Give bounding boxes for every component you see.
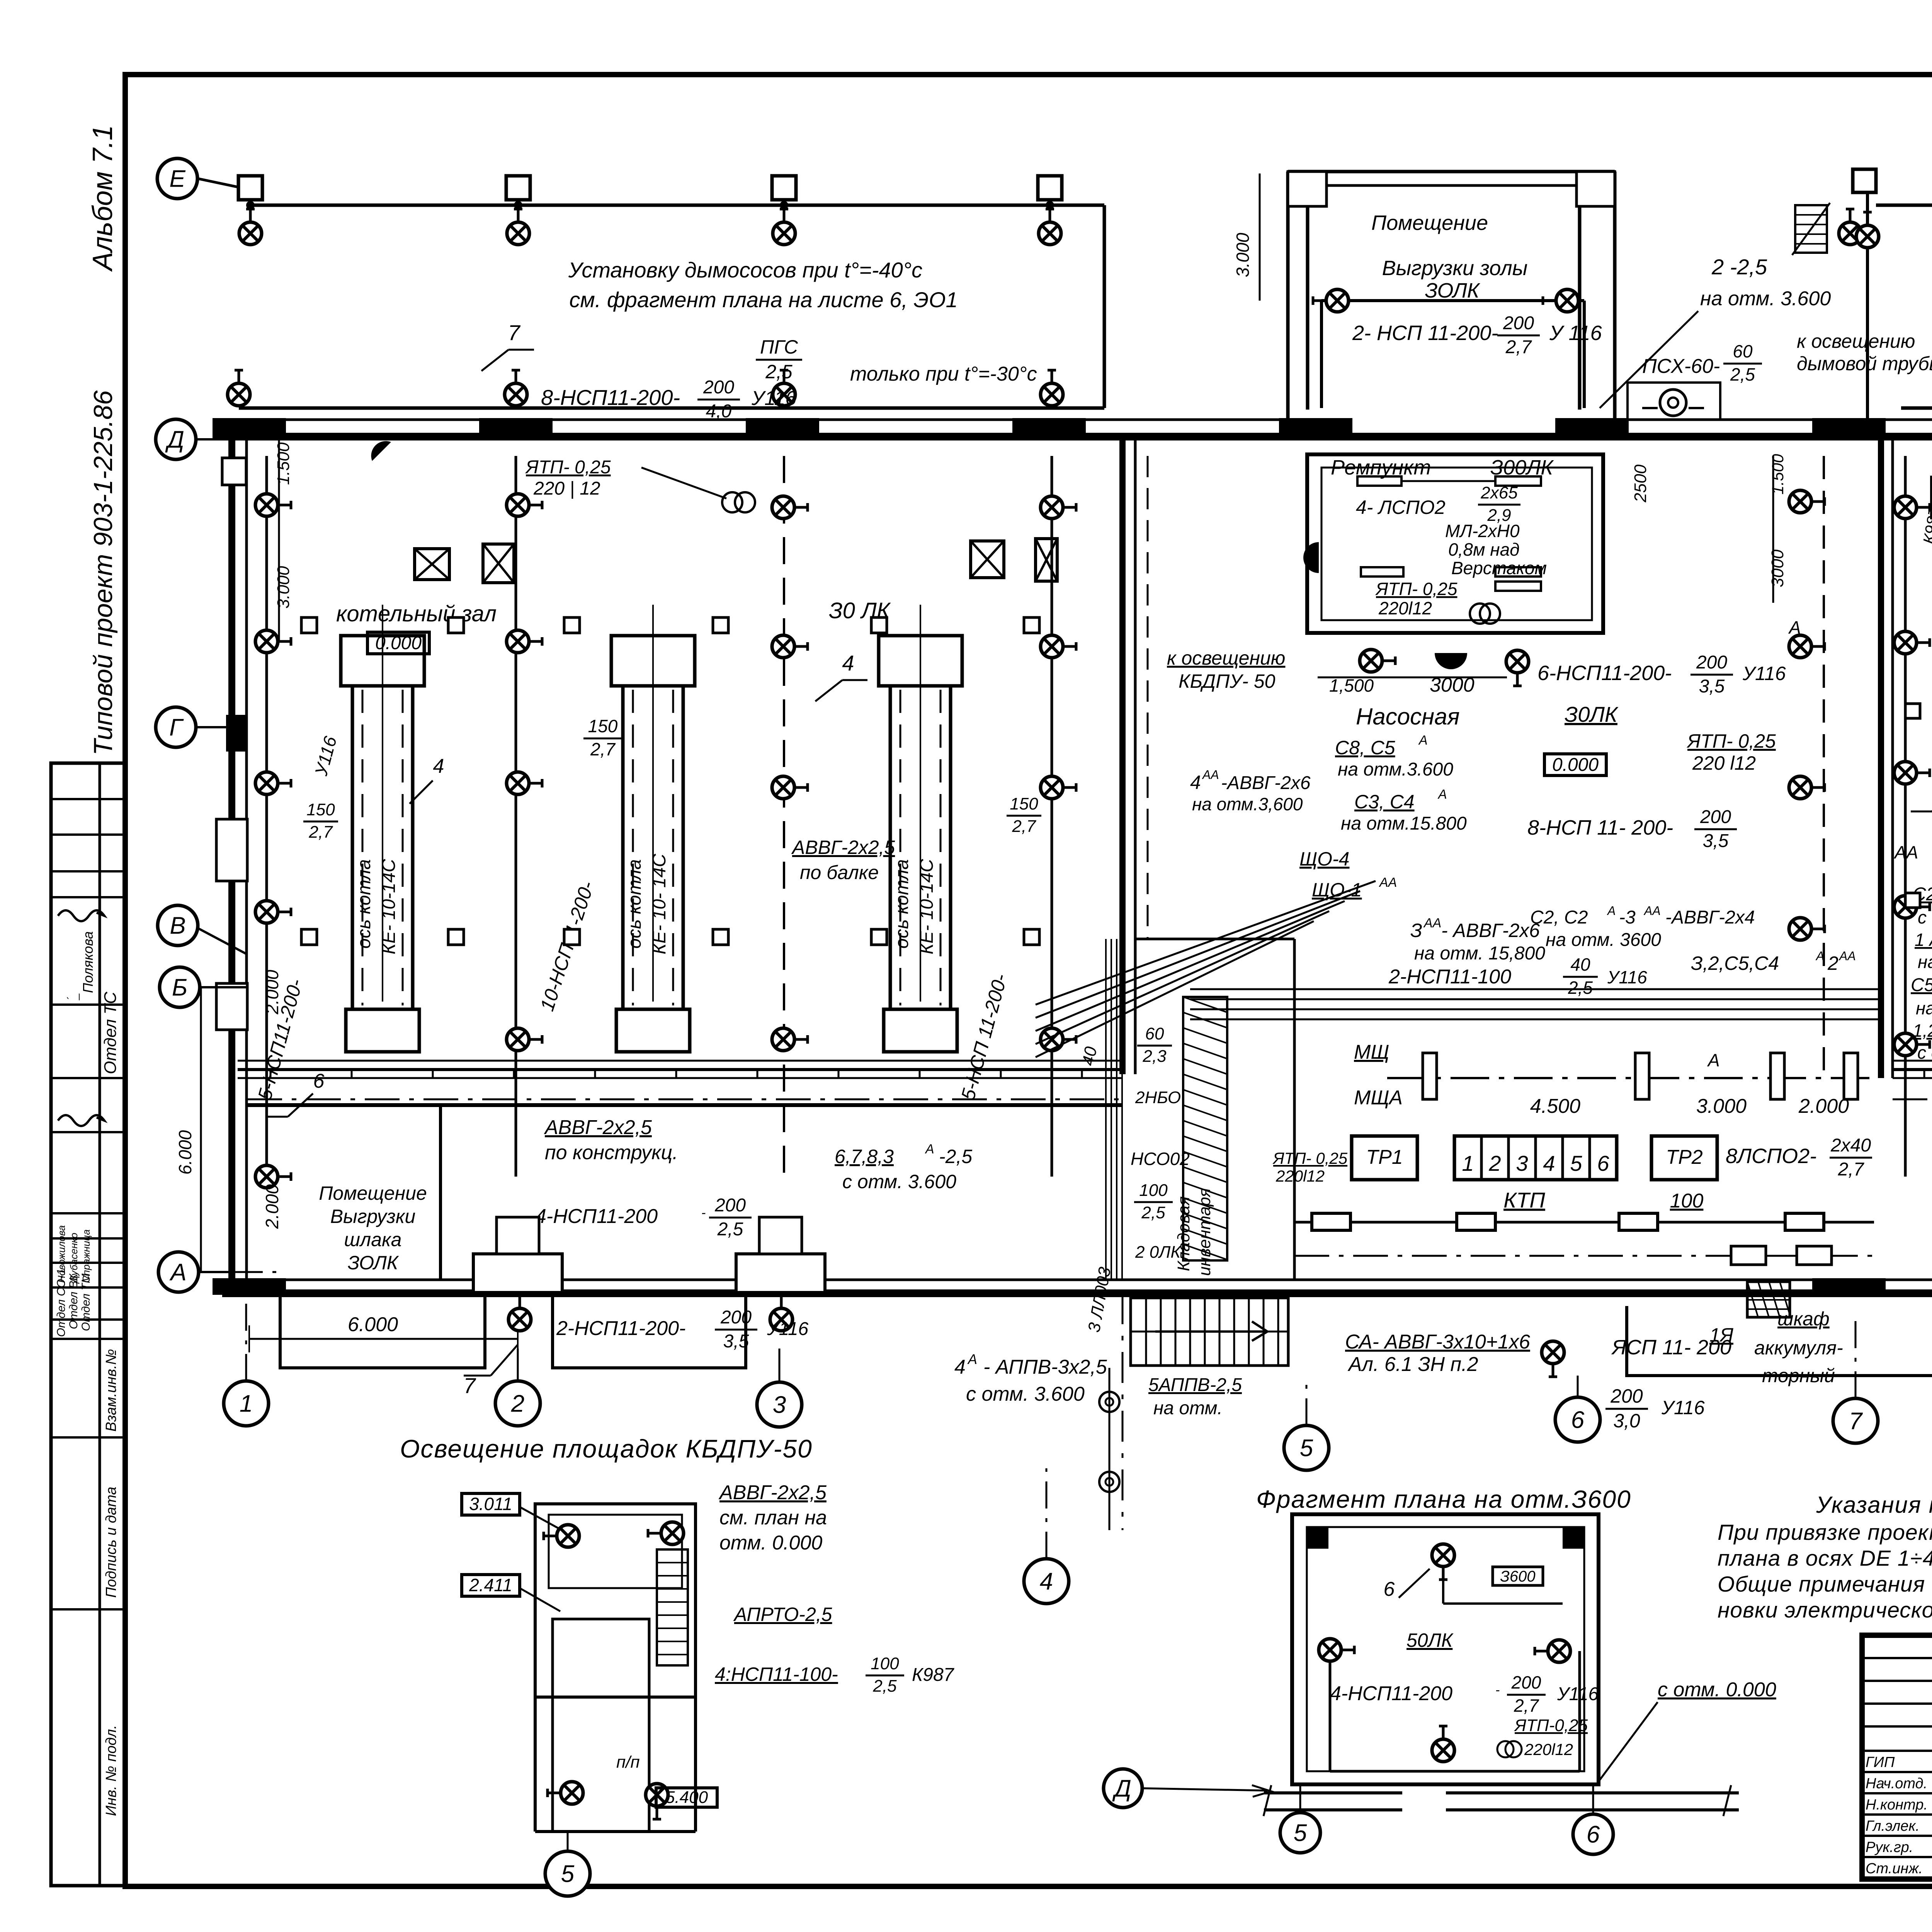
svg-text:2,7: 2,7 [1505, 337, 1532, 357]
lamp rcol0 3 [1894, 762, 1930, 784]
svg-text:У116: У116 [1661, 1397, 1705, 1418]
label C8 C5A [1335, 733, 1453, 780]
fragment label YaTP [1497, 1716, 1588, 1759]
svg-text:Г: Г [169, 714, 184, 741]
stamp signatures [58, 910, 104, 1126]
column circle 5 [1284, 1425, 1329, 1470]
label YaTP left hall [525, 457, 755, 512]
fragment c5 leader [1299, 1785, 1301, 1813]
svg-text:Общие примечания и ведомост: Общие примечания и ведомость узлов уста- [1718, 1572, 1932, 1597]
fragment c6 leader [1592, 1785, 1594, 1814]
svg-text:200: 200 [1696, 652, 1727, 673]
svg-text:4: 4 [1190, 772, 1201, 793]
svg-text:АА: АА [1423, 916, 1441, 930]
fragment axis D leader [1142, 1785, 1271, 1797]
svg-text:200: 200 [1700, 807, 1731, 827]
svg-text:НСО02: НСО02 [1131, 1149, 1190, 1169]
svg-text:ПСХ-60-: ПСХ-60- [1642, 355, 1720, 378]
boiler3 axis label [892, 859, 937, 954]
svg-text:200: 200 [1610, 1385, 1643, 1407]
left hall lamp column 1 [265, 456, 268, 1177]
svg-text:КЕ- 10-14С: КЕ- 10-14С [379, 859, 399, 954]
svg-text:ПГС: ПГС [760, 336, 798, 358]
KTP cells [1454, 1136, 1617, 1180]
ash room wire [1321, 301, 1584, 408]
dash-dot feeder bottom centre [1294, 1246, 1874, 1265]
platform 2-3 [553, 1293, 746, 1368]
svg-text:Альбом 7.1: Альбом 7.1 [87, 125, 118, 272]
centre stairs bottom [1131, 1298, 1288, 1366]
svg-text:плана в осях DЕ 1÷4; 7÷10: плана в осях DЕ 1÷4; 7÷10 исключить. [1718, 1546, 1932, 1571]
column 6 leader [1577, 1376, 1579, 1397]
lamp col4 2 [1041, 635, 1076, 658]
svg-text:Установку дымососов при t°: Установку дымососов при t°=-40°с [568, 258, 922, 282]
svg-text:МЩ: МЩ [1354, 1041, 1389, 1063]
column circle 2 [495, 1381, 540, 1426]
TR1 box [1352, 1136, 1417, 1180]
svg-text:У116: У116 [1607, 967, 1647, 987]
svg-text:ЩО-4: ЩО-4 [1299, 848, 1350, 870]
svg-text:6.000: 6.000 [175, 1130, 195, 1175]
svg-text:-АВВГ-2х4: -АВВГ-2х4 [1665, 907, 1755, 928]
svg-text:АВВГ-2х2,5: АВВГ-2х2,5 [791, 837, 895, 858]
left hall lamp column 2 [515, 456, 517, 1177]
label AVVG po konstruk left [544, 1116, 678, 1164]
svg-text:котельный зал: котельный зал [336, 601, 497, 626]
svg-text:200: 200 [720, 1307, 752, 1328]
svg-text:100: 100 [1139, 1181, 1168, 1200]
column 7 leader [1855, 1314, 1857, 1398]
svg-text:220l12: 220l12 [1524, 1740, 1573, 1759]
label PGS 2.5 left [756, 336, 802, 383]
svg-text:Насосная: Насосная [1356, 704, 1460, 730]
svg-text:2: 2 [511, 1391, 524, 1417]
svg-text:3000: 3000 [1430, 674, 1475, 696]
left wall dim 3.000 [274, 502, 293, 641]
row E wire left [250, 204, 1104, 207]
svg-text:ЯТП- 0,25: ЯТП- 0,25 [525, 457, 611, 478]
leader 8 right [1911, 763, 1932, 811]
label 8LSPO2 [1726, 1135, 1872, 1180]
lamp col4 1 [1041, 496, 1076, 519]
centre diag cable fan [1036, 881, 1878, 1057]
svg-text:А: А [1707, 1050, 1720, 1070]
svg-text:ЯТП- 0,25: ЯТП- 0,25 [1686, 730, 1776, 752]
fuse row under KTP [1294, 1213, 1874, 1230]
svg-text:4: 4 [1040, 1568, 1053, 1595]
svg-text:КБДПУ- 50: КБДПУ- 50 [1179, 670, 1276, 692]
svg-text:только при t°=-30°с: только при t°=-30°с [850, 363, 1037, 385]
labels C2 C2A right stack [1911, 879, 1932, 1063]
MShch feeder dash-dot [1387, 1077, 1878, 1079]
label 3AA AVVG-2x6 [1410, 916, 1545, 964]
leader 7 left [481, 320, 534, 371]
label 4-NSP11 left bottom [535, 1195, 752, 1240]
svg-text:5АППВ-2,5: 5АППВ-2,5 [1148, 1375, 1242, 1395]
KBDPU plan outline [535, 1504, 696, 1832]
svg-text:При привязке проекта для вариа: При привязке проекта для варианта t=-40°… [1718, 1520, 1932, 1545]
svg-text:ЯТП- 0,25: ЯТП- 0,25 [1375, 579, 1458, 599]
column 3 leader [779, 1349, 781, 1382]
axis circle A [158, 1252, 199, 1292]
svg-text:-: - [1495, 1683, 1500, 1697]
leader 6 left wall [267, 1070, 325, 1117]
svg-text:2.000: 2.000 [262, 1184, 282, 1229]
lamp col3 2 [772, 635, 808, 658]
ash room lamp 2 [1543, 289, 1578, 312]
fragment lamps mid [1319, 1639, 1354, 1661]
svg-text:40: 40 [1570, 954, 1590, 975]
column 4 leader [1046, 1468, 1048, 1559]
svg-text:1,2,3,2: 1,2,3,2 [1913, 1020, 1932, 1041]
svg-text:АА: АА [1202, 768, 1219, 782]
row E fixture squares left [238, 176, 262, 200]
svg-text:0,8м над: 0,8м над [1448, 539, 1520, 560]
svg-text:К987: К987 [912, 1665, 955, 1685]
axis circle G [156, 707, 196, 747]
left hall lamp column 3 dashed [783, 456, 785, 1177]
svg-text:С3, С4: С3, С4 [1354, 791, 1415, 813]
row D lamps left [228, 370, 250, 406]
boiler2 axis label [624, 854, 670, 954]
svg-text:З,2,С5,С4: З,2,С5,С4 [1691, 952, 1779, 974]
svg-text:220l12: 220l12 [1378, 598, 1432, 618]
svg-text:4: 4 [433, 755, 444, 777]
svg-text:2: 2 [1827, 952, 1838, 974]
centre flood light black [1435, 653, 1467, 669]
svg-text:150: 150 [306, 800, 335, 819]
boiler1 axis label [354, 859, 399, 954]
vent unit right wall [1932, 477, 1932, 518]
column circle 7 [1833, 1398, 1878, 1443]
svg-text:МЛ-2хН0: МЛ-2хН0 [1445, 521, 1520, 541]
platform 5-6 centre [1627, 1306, 1932, 1376]
TR2 box [1651, 1136, 1717, 1180]
svg-text:В: В [170, 913, 185, 939]
svg-text:Фрагмент плана на отм.З600: Фрагмент плана на отм.З600 [1256, 1485, 1631, 1513]
svg-text:220l12: 220l12 [1276, 1167, 1325, 1185]
label 5APPV [1148, 1375, 1242, 1418]
nasosnaya dashed right wall [1823, 456, 1825, 1074]
svg-text:2,5: 2,5 [1730, 364, 1755, 384]
lamp rcol0 2 [1894, 631, 1930, 654]
MShch labels [1354, 1041, 1403, 1109]
KBDPU side label AVVG [718, 1481, 827, 1554]
lamp col1 1 [255, 494, 291, 516]
svg-text:2 0ЛК: 2 0ЛК [1135, 1243, 1181, 1262]
row E lamps right [1839, 209, 1861, 245]
right hall lamp column 0 [1904, 456, 1907, 1177]
cable tray double line right [1893, 1061, 1932, 1078]
svg-text:2НБО: 2НБО [1135, 1088, 1181, 1107]
svg-text:60: 60 [1733, 341, 1753, 361]
label k osveshcheniyu dymovoy truby [1797, 330, 1932, 374]
label PSH-60 [1642, 341, 1762, 384]
svg-text:2,7: 2,7 [308, 823, 333, 842]
dim 6.000 left rotated [175, 987, 201, 1271]
rempunkt emergency light [1303, 542, 1319, 573]
svg-text:-2,5: -2,5 [939, 1146, 972, 1167]
svg-text:4.500: 4.500 [1530, 1095, 1580, 1117]
label YaTP centre [1686, 730, 1776, 774]
lamp col4 4 [1041, 1028, 1076, 1051]
svg-text:4: 4 [842, 651, 854, 675]
ash room walls [1288, 172, 1615, 420]
fixture frac col1 [303, 800, 338, 842]
svg-text:Помещение: Помещение [1371, 211, 1488, 235]
label C3 C4A [1341, 787, 1467, 834]
svg-text:2,7: 2,7 [1838, 1159, 1865, 1180]
axis A dashdot line [232, 1271, 286, 1273]
svg-text:Отдел ТМ: Отдел ТМ [80, 1274, 92, 1331]
svg-text:6: 6 [1571, 1407, 1585, 1434]
column 5 leader [1306, 1376, 1308, 1425]
svg-text:АВВГ-2х2,5: АВВГ-2х2,5 [544, 1116, 652, 1139]
svg-text:Отдел ТС: Отдел ТС [101, 991, 120, 1074]
svg-text:2.000: 2.000 [1798, 1095, 1849, 1117]
svg-text:2х65: 2х65 [1480, 483, 1518, 502]
nasosnaya dashed left wall [1147, 456, 1149, 939]
svg-text:1.500: 1.500 [1769, 454, 1787, 495]
rempunkt label YaTP [1375, 579, 1458, 618]
svg-text:торный: торный [1762, 1365, 1835, 1386]
label 4AA AVVG-2x6 [1190, 768, 1311, 814]
axis V leader [198, 928, 247, 954]
svg-text:Е: Е [169, 166, 185, 192]
svg-text:к освещению: к освещению [1797, 330, 1915, 352]
ash room title [1371, 211, 1527, 302]
label CA AVVG [1345, 1331, 1530, 1376]
svg-text:ЗОЛК: ЗОЛК [1425, 279, 1480, 302]
svg-text:6: 6 [1587, 1821, 1600, 1848]
svg-text:А: А [1788, 617, 1801, 638]
svg-text:на отм.15.800: на отм.15.800 [1341, 813, 1467, 834]
lamp rcol0 1 [1894, 496, 1930, 519]
svg-text:200: 200 [703, 377, 734, 398]
svg-text:на отм.3.600: на отм.3.600 [1338, 759, 1453, 780]
fragment 3600 mark [1493, 1567, 1543, 1585]
svg-text:150: 150 [588, 716, 618, 736]
svg-text:МЩА: МЩА [1354, 1087, 1403, 1109]
riser rings near column 4 [1099, 1368, 1119, 1530]
svg-text:Отдел СО-1: Отдел СО-1 [55, 1269, 68, 1337]
left junction squares row1 [301, 617, 317, 633]
svg-text:Верстаком: Верстаком [1451, 558, 1547, 578]
column circle 3 [757, 1382, 802, 1427]
svg-text:2,5: 2,5 [1141, 1203, 1165, 1222]
svg-text:100: 100 [1670, 1190, 1704, 1212]
platform 1-2 [280, 1293, 485, 1368]
svg-text:3: 3 [1516, 1151, 1528, 1175]
cable tray double line left [238, 1061, 1122, 1078]
svg-text:4- ЛСПО2: 4- ЛСПО2 [1356, 497, 1446, 518]
svg-text:КЕ- 10- 14С: КЕ- 10- 14С [649, 854, 670, 954]
stair hatch top middle [1792, 203, 1830, 255]
left hall lamp column 4 [1051, 456, 1053, 1177]
label 2-NSP11-100 centre [1388, 954, 1647, 998]
svg-text:Б: Б [172, 975, 187, 1001]
titleblock roles [1866, 1754, 1928, 1877]
svg-text:200: 200 [1511, 1672, 1541, 1692]
svg-text:см. план на: см. план на [719, 1507, 827, 1529]
svg-text:А: А [1607, 904, 1616, 918]
building bottom wall row A [213, 1278, 1932, 1295]
bottom rooms partition walls left [247, 1105, 1122, 1280]
svg-text:- АВВГ-2х6: - АВВГ-2х6 [1441, 920, 1540, 941]
svg-text:Указания по привязке.: Указания по привязке. [1816, 1492, 1932, 1518]
vent unit left 4 [1036, 539, 1057, 581]
svg-text:4-НСП11-200: 4-НСП11-200 [1330, 1682, 1452, 1705]
label 8-NSP11 centre [1527, 807, 1737, 851]
svg-text:-: - [701, 1206, 706, 1220]
nasosnaya dim chain right [1631, 454, 1787, 603]
lamp col1 4 [255, 901, 291, 923]
label 6-NSP11 centre [1537, 652, 1786, 697]
label 60-2.3 [1137, 1024, 1172, 1066]
svg-text:АА: АА [1893, 842, 1918, 862]
axis circle B [160, 967, 200, 1007]
lamp col4 3 [1041, 776, 1076, 799]
fragment circle 6 [1573, 1814, 1613, 1854]
svg-text:по балке: по балке [800, 862, 879, 883]
KBDPU circle5 leader [567, 1832, 569, 1851]
lamp col2 2 [507, 630, 542, 653]
svg-text:7: 7 [508, 320, 520, 345]
axis D leader [196, 438, 232, 440]
svg-text:0.000: 0.000 [1552, 755, 1599, 775]
svg-text:ЩО-1: ЩО-1 [1312, 879, 1362, 901]
svg-text:4,0: 4,0 [706, 401, 732, 422]
svg-text:Полякова: Полякова [80, 931, 96, 993]
smoke flue lamp [1856, 212, 1879, 248]
svg-text:4:НСП11-100-: 4:НСП11-100- [715, 1663, 838, 1685]
lamp col1 3 [255, 772, 291, 794]
svg-text:2500: 2500 [1631, 464, 1650, 503]
KBDPU lamps bottom [548, 1782, 583, 1804]
axis G leader [196, 726, 232, 728]
svg-text:1 АА- АВВГ-2х6: 1 АА- АВВГ-2х6 [1915, 930, 1932, 950]
svg-text:инвентаря: инвентаря [1195, 1188, 1214, 1276]
title block outer [1862, 1635, 1932, 1879]
KBDPU label 4-NSP11-100 [715, 1654, 955, 1696]
svg-text:З0ЛК: З0ЛК [1565, 702, 1619, 726]
svg-text:4: 4 [954, 1356, 966, 1378]
MShch bus links [1423, 1053, 1437, 1099]
svg-text:ось котла: ось котла [354, 859, 374, 949]
building top wall row D [213, 418, 1932, 438]
svg-text:6,7,8,3: 6,7,8,3 [835, 1146, 894, 1167]
bottom lamps row under A wall [509, 1295, 531, 1331]
svg-text:200: 200 [714, 1195, 746, 1216]
svg-text:220 | 12: 220 | 12 [533, 478, 600, 499]
svg-text:3000: 3000 [1768, 549, 1787, 587]
row E drop right end left part [1103, 205, 1106, 408]
fragment top lamp [1432, 1544, 1454, 1580]
KBDPU circle 5 [545, 1851, 590, 1896]
svg-text:А: А [1437, 787, 1447, 802]
svg-text:п/п: п/п [616, 1753, 640, 1772]
svg-text:новки электрического оборуд: новки электрического оборудования см. ЭО… [1718, 1598, 1932, 1622]
svg-text:8-НСП 11- 200-: 8-НСП 11- 200- [1527, 816, 1673, 839]
axis E leader [197, 179, 240, 187]
svg-text:3.000: 3.000 [1233, 233, 1253, 277]
svg-text:Д: Д [165, 427, 184, 453]
svg-text:Гл.элек.: Гл.элек. [1866, 1818, 1920, 1834]
left boiler 1 [341, 636, 424, 686]
title block left table rows [1862, 1658, 1932, 1857]
svg-text:к освещению: к освещению [1167, 647, 1285, 669]
KBDPU mark 2.411 [462, 1575, 560, 1611]
svg-text:-АВВГ-2х6: -АВВГ-2х6 [1221, 773, 1311, 793]
svg-text:Выгрузки золы: Выгрузки золы [1382, 257, 1528, 280]
svg-text:5: 5 [561, 1861, 575, 1888]
lamp col3 3 [772, 776, 808, 799]
right junction squares row1 [1905, 704, 1920, 718]
svg-text:ТР2: ТР2 [1666, 1146, 1702, 1168]
svg-text:2 -2,5: 2 -2,5 [1711, 255, 1767, 279]
lamp col3 4 [772, 1028, 808, 1051]
svg-text:6: 6 [1384, 1578, 1395, 1600]
svg-text:3.011: 3.011 [469, 1494, 512, 1514]
svg-text:2,5: 2,5 [1568, 978, 1593, 998]
left boiler 2 [611, 636, 695, 686]
lamp col2 4 [507, 1028, 542, 1051]
svg-text:У116: У116 [751, 387, 796, 410]
fragment bottom lamp [1432, 1726, 1454, 1762]
building left wall [216, 420, 247, 1293]
svg-text:Д: Д [1112, 1776, 1131, 1802]
svg-text:Типовой проект 903-1-225.86: Типовой проект 903-1-225.86 [88, 390, 118, 755]
svg-text:С8, С5: С8, С5 [1335, 737, 1395, 759]
svg-text:шкаф: шкаф [1777, 1308, 1830, 1330]
svg-text:Подпись и дата: Подпись и дата [103, 1487, 119, 1598]
level mark 0.000 centre [1544, 754, 1606, 776]
flood light black left [371, 441, 391, 461]
label 8-NSP11 left [541, 377, 796, 422]
vent unit left 3 [971, 541, 1004, 578]
slag room left title [319, 1182, 427, 1274]
slag room left lamp [255, 1165, 291, 1188]
fragment label s otm 0.000 [1596, 1679, 1776, 1785]
svg-text:5: 5 [1300, 1435, 1313, 1462]
dim 6.000 bottom [249, 1313, 518, 1352]
leader 4 left [410, 651, 867, 804]
fixture frac col2 [583, 716, 622, 759]
fragment leader 6 [1384, 1569, 1430, 1600]
rempunkt label 4-LSPO2 [1356, 483, 1520, 525]
lamp rcol0 5 [1894, 1033, 1930, 1056]
svg-text:3.000: 3.000 [274, 566, 293, 609]
svg-text:АПРТО-2,5: АПРТО-2,5 [733, 1604, 832, 1625]
svg-text:3.000: 3.000 [1696, 1095, 1747, 1117]
svg-text:Нач.отд.: Нач.отд. [1866, 1776, 1927, 1792]
svg-text:У116: У116 [767, 1319, 809, 1339]
dim 4.500 3.000 2.000 [1530, 1095, 1849, 1117]
label 4A APPV bottom [954, 1351, 1107, 1405]
column circle 6 [1555, 1397, 1600, 1442]
centre column 4 line [1122, 1293, 1124, 1530]
KBDPU mark 5.400 [656, 1788, 717, 1807]
label 2-NSP11 bottom left [556, 1307, 809, 1352]
pier blocks at columns bottom [473, 1254, 562, 1293]
svg-text:АА: АА [1643, 904, 1661, 918]
svg-text:6-НСП11-200-: 6-НСП11-200- [1537, 662, 1672, 685]
svg-text:СА- АВВГ-3х10+1х6: СА- АВВГ-3х10+1х6 [1345, 1331, 1530, 1353]
svg-text:2- НСП 11-200-: 2- НСП 11-200- [1352, 321, 1498, 345]
svg-text:1,500: 1,500 [1329, 675, 1374, 696]
svg-text:8-НСП11-200-: 8-НСП11-200- [541, 385, 680, 410]
svg-text:см. фрагмент плана на лист: см. фрагмент плана на листе 6, ЭО1 [569, 287, 957, 312]
